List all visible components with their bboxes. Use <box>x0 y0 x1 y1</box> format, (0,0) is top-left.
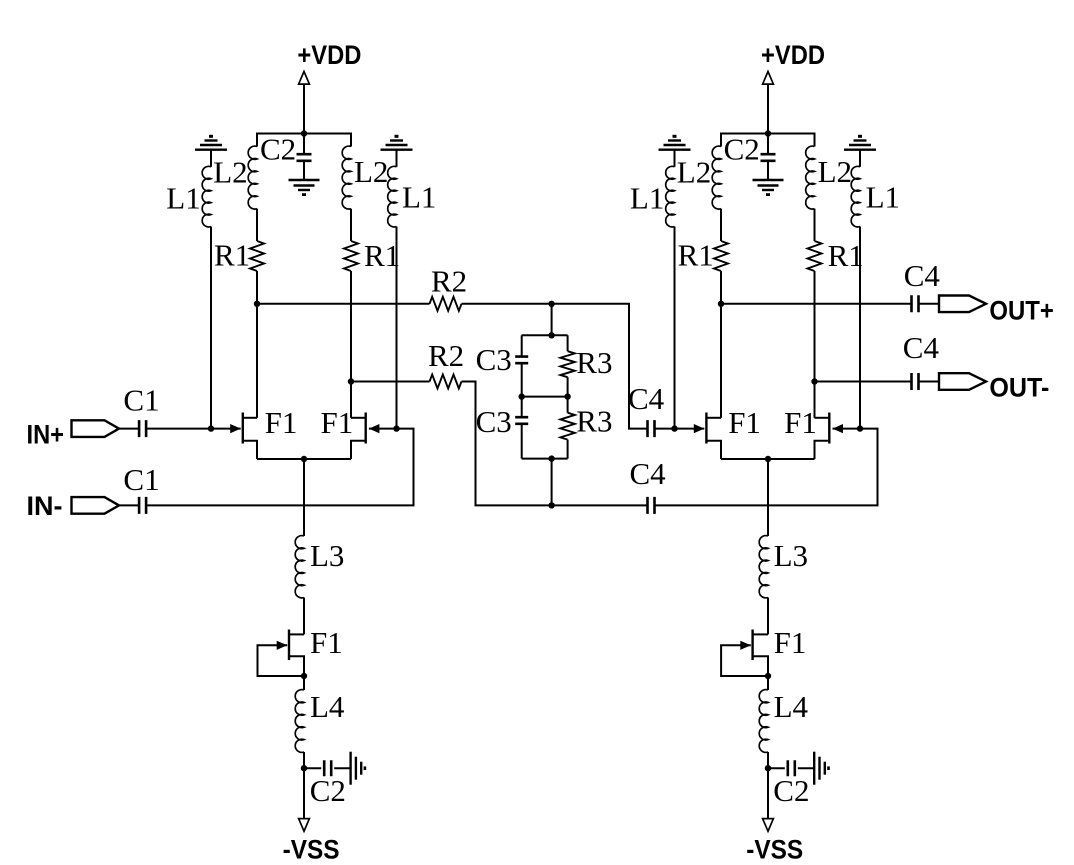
wire +VDD to rail <box>303 84 305 133</box>
junction VSS node (stage 2) <box>765 765 771 771</box>
ladder top rail <box>522 334 568 336</box>
ground beside C2 (stage 1 bottom) <box>351 752 365 785</box>
svg-text:L2: L2 <box>818 154 852 189</box>
wire L2 to R1 (stage 1 right) <box>350 209 352 241</box>
port OUT+ <box>939 296 986 313</box>
F1 source stub (stage 1 left) <box>244 441 257 459</box>
inductor L2 (stage 1 right) <box>342 146 351 209</box>
svg-text:L1: L1 <box>402 180 436 215</box>
wire L1 to IN+ gate node <box>210 227 212 429</box>
junction ladder top node <box>548 332 554 338</box>
wire L4 to VSS node (stage 1) <box>303 752 305 768</box>
wire C3 to ladder mid (upper) <box>521 363 523 396</box>
lower signal rail stage1 drain to R2 <box>351 381 430 383</box>
top rail (stage 1) <box>257 134 351 147</box>
wire R1 to drain node (stage 1 left) <box>256 271 258 304</box>
wire C2 to ground <box>303 161 305 180</box>
F1 source stub (stage 2 right) <box>815 441 829 459</box>
svg-text:C2: C2 <box>724 132 760 167</box>
junction ladder bottom node <box>548 455 554 461</box>
wire C4 to OUT- port <box>920 381 940 383</box>
wire C4 to stage2 left gate <box>656 428 705 430</box>
wire node to C2 (stage 1 bottom) <box>304 767 321 769</box>
tail F1 source stub (stage 2) <box>753 656 768 690</box>
junction bottom rail to ladder <box>548 502 554 508</box>
resistor R2 (lower) <box>430 375 462 389</box>
tail F1 drain stub (stage 2) <box>753 633 768 635</box>
svg-text:C1: C1 <box>123 462 159 497</box>
junction tail gate-source (stage 2) <box>765 673 771 679</box>
svg-text:C4: C4 <box>904 258 941 293</box>
svg-text:C2: C2 <box>260 132 296 167</box>
svg-text:C3: C3 <box>476 404 512 439</box>
capacitor C3 (lower) <box>515 417 528 424</box>
wire C2 to ground (stage 2) <box>767 161 769 180</box>
inductor L2 (stage 2 left) <box>712 146 721 209</box>
wire upper rail to ladder top <box>551 304 553 336</box>
wire ladder top to C3 (upper) <box>521 335 523 356</box>
inductor L1 (stage 2 left) <box>666 166 675 227</box>
inductor L4 (stage 2) <box>759 690 768 753</box>
tail F1 gate feedback wire (stage 1) <box>258 645 305 676</box>
power arrow +VDD (stage 2) <box>763 72 774 85</box>
ground above L1 (stage 2 right) <box>844 136 876 149</box>
tail F1 gate arrow (stage 1) <box>277 641 288 650</box>
wire C2 to ground (stage 2 bottom) <box>798 767 814 769</box>
svg-text:F1: F1 <box>265 405 298 440</box>
svg-text:F1: F1 <box>321 405 354 440</box>
power arrow +VDD (stage 1) <box>299 72 310 85</box>
inductor L4 (stage 1) <box>295 690 304 753</box>
wire source node to L3 (stage 1) <box>303 459 305 536</box>
upper rail R2 to corner and down to C4 <box>462 304 647 429</box>
svg-text:L1: L1 <box>630 180 664 215</box>
svg-text:C4: C4 <box>903 330 940 365</box>
ground beside C2 (stage 2 bottom) <box>814 752 828 785</box>
svg-text:R2: R2 <box>428 338 464 373</box>
junction stage2 right gate / L1 <box>857 425 863 431</box>
wire IN- to right gate riser <box>147 429 413 506</box>
inductor L1 (stage 1 right) <box>388 166 397 227</box>
wire drain node to F1 drain (stage 1 left) <box>256 304 258 418</box>
ladder middle rail <box>522 396 568 398</box>
svg-text:F1: F1 <box>774 625 807 660</box>
ground below C2 (stage 1) <box>289 180 320 195</box>
junction source node (stage 2) <box>765 456 771 462</box>
port IN- <box>72 497 120 514</box>
wire VSS node to arrow (stage 1) <box>303 768 305 818</box>
inductor L2 (stage 2 right) <box>806 146 815 209</box>
junction right drain node (stage 1) <box>348 378 354 384</box>
upper signal rail stage1 drain to R2 <box>257 303 430 305</box>
source rail (stage 2) <box>721 458 815 460</box>
wire L4 to VSS node (stage 2) <box>767 752 769 768</box>
inductor L1 (stage 1 left) <box>202 166 211 227</box>
F1 source stub (stage 2 left) <box>707 441 721 459</box>
svg-text:L4: L4 <box>774 689 809 724</box>
svg-text:IN+: IN+ <box>27 420 65 450</box>
capacitor C4 (OUT-) <box>912 373 919 390</box>
junction stage2 left gate / L1 <box>671 425 677 431</box>
capacitor C2 (stage 1 supply bypass) <box>297 154 312 161</box>
wire C2 to ground (stage 1 bottom) <box>334 767 350 769</box>
svg-text:IN-: IN- <box>27 491 63 521</box>
svg-text:R3: R3 <box>576 404 612 439</box>
svg-text:L2: L2 <box>677 155 711 190</box>
svg-text:R2: R2 <box>431 263 467 298</box>
wire R1 to drain node (stage 2 right) <box>814 271 816 382</box>
wire L2 to R1 (stage 1 left) <box>256 209 258 241</box>
capacitor C1 (IN- coupling) <box>139 497 146 514</box>
transistor F1 gate bar (stage 2 right) <box>828 413 830 444</box>
ground above L1 (stage 1 left) <box>195 136 227 149</box>
ground below C2 (stage 2) <box>753 180 784 195</box>
wire ground to L1 (stage 2 left) <box>674 150 676 167</box>
tail transistor F1 gate bar (stage 1) <box>288 630 290 661</box>
resistor R3 (upper) <box>560 351 574 377</box>
svg-text:-VSS: -VSS <box>746 835 803 865</box>
resistor R1 (stage 1 left) <box>250 241 264 271</box>
wire node to C2 (stage 2 bottom) <box>768 767 785 769</box>
wire drain node to F1 drain (stage 2 right) <box>814 382 816 418</box>
capacitor C2 (stage 2 bottom) <box>788 760 795 776</box>
top rail (stage 2) <box>721 134 815 147</box>
svg-text:R1: R1 <box>678 238 714 273</box>
power arrow -VSS (stage 2) <box>763 819 774 832</box>
F1 drain stub (stage 2 left) <box>707 417 721 419</box>
wire R1 to drain node (stage 2 left) <box>720 271 722 304</box>
port IN+ <box>72 420 120 437</box>
junction upper rail to ladder <box>548 301 554 307</box>
junction source node (stage 1) <box>301 456 307 462</box>
capacitor C2 (stage 1 bottom) <box>324 760 331 776</box>
tail F1 gate feedback wire (stage 2) <box>721 645 768 676</box>
wire VDD node to C2 <box>303 134 305 155</box>
tail F1 gate arrow (stage 2) <box>740 641 751 650</box>
F1 gate arrow (stage 2 right) <box>833 424 844 433</box>
junction ladder mid right <box>564 393 570 399</box>
wire VSS node to arrow (stage 2) <box>767 768 769 818</box>
capacitor C2 (stage 2 supply bypass) <box>761 154 776 161</box>
resistor R3 (lower) <box>560 413 574 440</box>
svg-text:F1: F1 <box>310 625 343 660</box>
source rail (stage 1) <box>257 458 351 460</box>
F1 drain stub (stage 1 right) <box>351 417 365 419</box>
resistor R2 (upper) <box>430 297 462 311</box>
capacitor C4 (interstage lower) <box>648 497 655 514</box>
capacitor C1 (IN+ coupling) <box>139 420 146 437</box>
wire VDD node to C2 (stage 2) <box>767 134 769 155</box>
wire ground to L1 (stage 1 left) <box>210 150 212 167</box>
wire C4 to OUT+ port <box>920 303 940 305</box>
svg-text:L2: L2 <box>213 155 247 190</box>
resistor R1 (stage 1 right) <box>344 241 358 271</box>
wire R3 to ladder mid (upper) <box>567 377 569 396</box>
tail F1 source stub (stage 1) <box>290 656 304 690</box>
svg-text:R1: R1 <box>214 238 250 273</box>
wire IN+ to C1 <box>119 428 139 430</box>
wire drain node to F1 drain (stage 1 right) <box>350 382 352 418</box>
svg-text:L3: L3 <box>310 538 344 573</box>
junction VSS node (stage 1) <box>301 765 307 771</box>
svg-text:R3: R3 <box>576 345 612 380</box>
svg-text:L1: L1 <box>866 180 900 215</box>
ground above L1 (stage 1 right) <box>381 136 413 149</box>
svg-text:+VDD: +VDD <box>761 40 825 70</box>
capacitor C4 (interstage upper) <box>648 420 655 437</box>
power arrow -VSS (stage 1) <box>299 819 310 832</box>
svg-text:R1: R1 <box>828 238 864 273</box>
wire R3 to ladder bottom (lower) <box>567 440 569 459</box>
wire L3 to tail F1 drain (stage 2) <box>767 598 769 635</box>
wire ladder mid to C3 (lower) <box>521 397 523 417</box>
ladder bottom rail <box>522 458 568 460</box>
wire L1 to left gate node (stage 2) <box>674 227 676 429</box>
junction right drain node (stage 2) <box>811 378 817 384</box>
svg-text:L4: L4 <box>310 689 345 724</box>
svg-text:C4: C4 <box>630 456 667 491</box>
svg-text:-VSS: -VSS <box>283 835 340 865</box>
transistor F1 gate bar (stage 1 right) <box>365 413 367 444</box>
F1 source stub (stage 1 right) <box>351 441 365 459</box>
junction tail gate-source (stage 1) <box>301 673 307 679</box>
wire ladder bottom to lower rail <box>551 459 553 506</box>
wire C4 to stage2 right gate riser <box>656 429 878 506</box>
F1 gate arrow (stage 2 left) <box>694 424 705 433</box>
inductor L3 (stage 1) <box>295 536 304 598</box>
resistor R1 (stage 2 right) <box>808 241 822 271</box>
resistor R1 (stage 2 left) <box>714 241 728 271</box>
svg-text:C3: C3 <box>476 342 512 377</box>
transistor F1 gate bar (stage 1 left) <box>242 413 244 444</box>
wire L2 to R1 (stage 2 left) <box>720 209 722 241</box>
junction left drain node (stage 1) <box>254 301 260 307</box>
tail F1 drain stub (stage 1) <box>290 633 304 635</box>
junction VDD node (stage 1) <box>301 130 307 136</box>
inductor L2 (stage 1 left) <box>248 146 257 209</box>
wire ground to L1 (stage 1 right) <box>396 150 398 167</box>
svg-text:OUT+: OUT+ <box>989 295 1054 325</box>
wire C1 to gate of F1 <box>147 428 241 430</box>
F1 gate arrow (stage 1 right) <box>369 424 380 433</box>
tail transistor F1 gate bar (stage 2) <box>751 630 753 661</box>
junction ladder mid left <box>519 393 525 399</box>
svg-text:L3: L3 <box>774 538 808 573</box>
wire L3 to tail F1 drain (stage 1) <box>303 598 305 635</box>
F1 drain stub (stage 1 left) <box>244 417 257 419</box>
capacitor C3 (upper) <box>515 357 528 364</box>
wire source node to L3 (stage 2) <box>767 459 769 536</box>
svg-text:C4: C4 <box>628 381 665 416</box>
svg-text:C1: C1 <box>123 383 159 418</box>
OUT+ rail from stage2 left drain <box>721 303 911 305</box>
wire ground to L1 (stage 2 right) <box>859 150 861 167</box>
svg-text:C2: C2 <box>773 773 809 808</box>
svg-text:F1: F1 <box>728 405 761 440</box>
transistor F1 gate bar (stage 2 left) <box>705 413 707 444</box>
wire ladder top to R3 (upper) <box>567 335 569 351</box>
wire L1 to right gate node (stage 1) <box>396 227 398 429</box>
svg-text:OUT-: OUT- <box>989 373 1049 403</box>
inductor L1 (stage 2 right) <box>851 166 860 227</box>
wire drain node to F1 drain (stage 2 left) <box>720 304 722 418</box>
wire ladder mid to R3 (lower) <box>567 397 569 413</box>
junction IN+ / L1 <box>208 425 214 431</box>
junction VDD node (stage 2) <box>765 130 771 136</box>
junction right gate / L1 <box>393 425 399 431</box>
F1 gate arrow (stage 1 left) <box>230 424 241 433</box>
svg-text:L1: L1 <box>166 180 200 215</box>
svg-text:L2: L2 <box>354 154 388 189</box>
lower rail R2 corner down to bottom rail <box>462 382 647 506</box>
wire R1 to drain node (stage 1 right) <box>350 271 352 382</box>
OUT- rail from stage2 right drain <box>815 381 911 383</box>
junction left drain node (stage 2) <box>718 301 724 307</box>
svg-text:F1: F1 <box>784 405 817 440</box>
wire IN- to C1 <box>119 504 139 506</box>
wire L2 to R1 (stage 2 right) <box>814 209 816 241</box>
svg-text:C2: C2 <box>310 773 346 808</box>
svg-text:R1: R1 <box>364 238 400 273</box>
wire C3 to ladder bottom (lower) <box>521 424 523 459</box>
F1 drain stub (stage 2 right) <box>815 417 829 419</box>
ground above L1 (stage 2 left) <box>659 136 691 149</box>
wire L1 to right gate node (stage 2) <box>859 227 861 429</box>
port OUT- <box>939 373 986 390</box>
svg-text:+VDD: +VDD <box>297 40 361 70</box>
wire +VDD to rail (stage 2) <box>767 84 769 133</box>
inductor L3 (stage 2) <box>759 536 768 598</box>
capacitor C4 (OUT+) <box>912 295 919 312</box>
